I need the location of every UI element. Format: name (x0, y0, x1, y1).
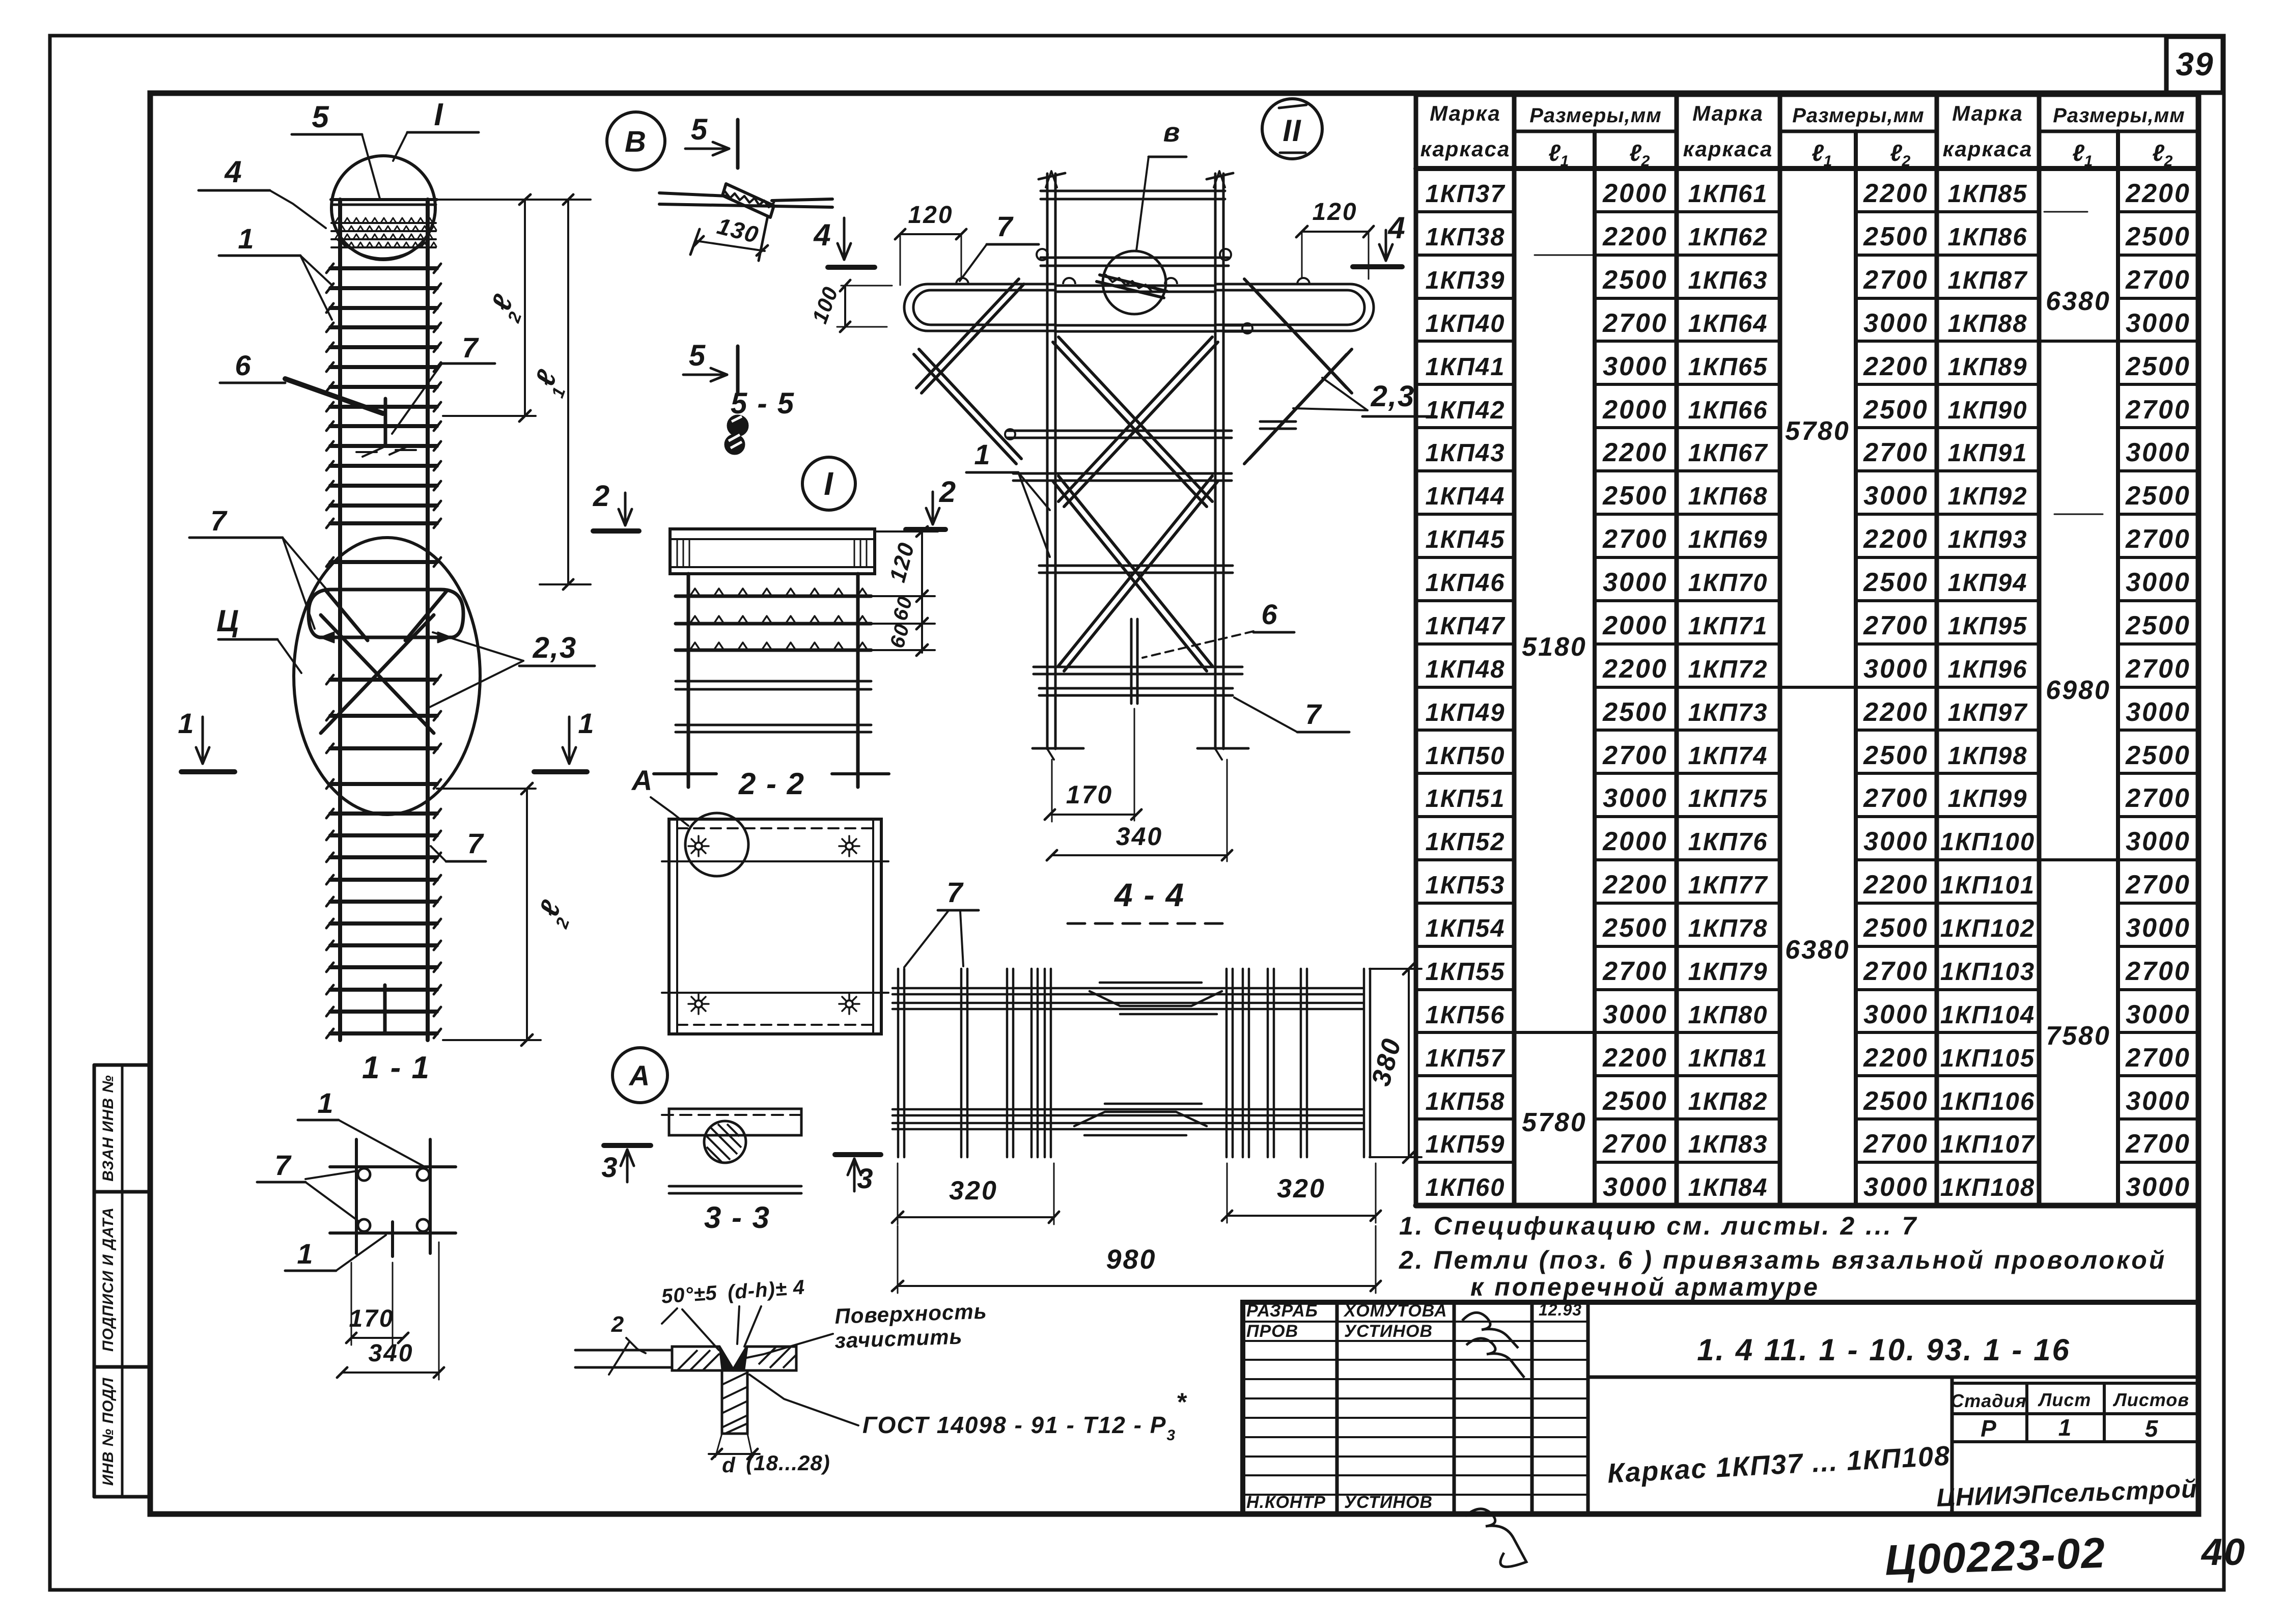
table row lines (1416, 210, 1514, 213)
inner frame (150, 93, 2198, 1514)
svg-text:1КП70: 1КП70 (1688, 569, 1768, 597)
svg-text:1. Спецификацию см. листы.: 1. Спецификацию см. листы. 2 ... 7 (1399, 1212, 1918, 1240)
svg-text:2200: 2200 (1863, 524, 1929, 554)
lifting loop poz6 (309, 590, 463, 637)
3-3 bar section hatched (704, 1121, 746, 1163)
svg-text:УСТИНОВ: УСТИНОВ (1344, 1322, 1433, 1341)
svg-text:2200: 2200 (1863, 697, 1929, 727)
svg-text:ℓ: ℓ (1890, 139, 1902, 166)
svg-text:4: 4 (224, 155, 242, 189)
svg-text:ℓ: ℓ (1548, 139, 1561, 166)
svg-text:1КП96: 1КП96 (1947, 656, 2027, 683)
svg-text:2500: 2500 (2125, 481, 2191, 511)
svg-text:6980: 6980 (2046, 676, 2111, 705)
svg-text:5780: 5780 (1522, 1108, 1587, 1137)
weld symbol top-left (695, 843, 702, 850)
table header line razmery (1514, 130, 1677, 133)
4-4 bottom chord pair (893, 1108, 1362, 1111)
svg-text:2: 2 (939, 475, 957, 509)
svg-text:2: 2 (2164, 153, 2173, 170)
svg-text:1КП104: 1КП104 (1940, 1001, 2035, 1029)
svg-text:Марка: Марка (1692, 101, 1764, 125)
splice detail circle B ref (1103, 251, 1166, 314)
svg-text:2: 2 (1902, 153, 1911, 170)
svg-text:2000: 2000 (1602, 395, 1668, 425)
svg-text:2,3: 2,3 (533, 631, 577, 664)
svg-text:170: 170 (349, 1305, 394, 1332)
svg-text:1: 1 (1824, 153, 1832, 170)
svg-text:1КП37: 1КП37 (1425, 180, 1506, 208)
svg-text:7: 7 (946, 876, 964, 908)
svg-text:1КП83: 1КП83 (1688, 1131, 1768, 1158)
weld symbol bottom-right (846, 1000, 853, 1007)
svg-text:3000: 3000 (1863, 1172, 1929, 1202)
svg-text:1КП103: 1КП103 (1940, 958, 2035, 986)
svg-text:3000: 3000 (1863, 481, 1929, 511)
svg-text:1КП87: 1КП87 (1947, 267, 2028, 294)
svg-text:2500: 2500 (1602, 913, 1668, 943)
svg-text:1: 1 (2084, 153, 2093, 170)
svg-text:3000: 3000 (2126, 1086, 2191, 1116)
svg-text:120: 120 (1312, 199, 1357, 226)
svg-text:2000: 2000 (1602, 827, 1668, 856)
svg-text:3000: 3000 (1863, 654, 1929, 684)
svg-text:2500: 2500 (1863, 568, 1929, 597)
svg-text:2200: 2200 (1602, 222, 1668, 251)
hairpin tick mid (384, 399, 387, 446)
svg-text:5: 5 (691, 113, 708, 146)
svg-text:1КП65: 1КП65 (1688, 353, 1768, 381)
svg-text:1КП46: 1КП46 (1425, 569, 1505, 597)
svg-text:1КП61: 1КП61 (1688, 180, 1768, 208)
svg-text:II: II (1283, 114, 1301, 148)
dimension d 18-28 (715, 1434, 722, 1457)
svg-text:ℓ: ℓ (2072, 139, 2084, 166)
bar 5 with stub (1007, 430, 1232, 432)
svg-text:1КП82: 1КП82 (1688, 1088, 1768, 1115)
weld fill triangles (719, 1347, 733, 1369)
title block frame (1243, 1302, 2198, 1514)
weld plate hatched (672, 1347, 796, 1370)
svg-text:2700: 2700 (1863, 265, 1929, 295)
svg-text:2500: 2500 (1863, 222, 1929, 251)
break symbol mid (356, 451, 377, 453)
svg-text:1КП39: 1КП39 (1425, 267, 1505, 294)
svg-text:2700: 2700 (1602, 1129, 1668, 1159)
spliced bar 5-5 (659, 193, 726, 196)
svg-text:2200: 2200 (1602, 438, 1668, 467)
dimension 380 (1370, 968, 1422, 970)
detail I dome circle (331, 156, 435, 260)
svg-text:каркаса: каркаса (1943, 137, 2033, 161)
svg-text:Лист: Лист (2038, 1389, 2092, 1410)
2-2 plain bar 2 (676, 724, 871, 726)
svg-text:2700: 2700 (1602, 957, 1668, 986)
svg-text:340: 340 (1116, 822, 1163, 851)
2-2 ground marks (654, 772, 716, 775)
2-2 dimensions (876, 530, 938, 533)
svg-text:2700: 2700 (1602, 309, 1668, 338)
plan square outline (669, 819, 881, 1034)
svg-text:2700: 2700 (2125, 265, 2191, 295)
svg-text:2700: 2700 (2125, 783, 2191, 813)
svg-text:зачистить: зачистить (834, 1324, 963, 1353)
section marker 3 left (604, 1143, 651, 1148)
svg-text:2200: 2200 (2125, 179, 2191, 208)
svg-text:320: 320 (1277, 1174, 1326, 1203)
svg-text:1КП77: 1КП77 (1688, 872, 1768, 899)
svg-text:4: 4 (813, 218, 831, 252)
2-2 plain bar 1 (676, 680, 871, 683)
big right rail (1214, 174, 1217, 749)
svg-text:3000: 3000 (2126, 1000, 2191, 1029)
svg-text:7: 7 (462, 331, 479, 363)
inner X brace (1058, 476, 1212, 666)
svg-text:Размеры,мм: Размеры,мм (2053, 104, 2185, 127)
svg-text:1КП75: 1КП75 (1688, 785, 1768, 813)
svg-text:Размеры,мм: Размеры,мм (1529, 104, 1662, 127)
svg-text:2500: 2500 (2125, 222, 2191, 251)
svg-text:1КП38: 1КП38 (1425, 223, 1505, 251)
svg-text:6: 6 (235, 349, 252, 381)
plan square top band (662, 860, 888, 862)
svg-text:1КП44: 1КП44 (1425, 483, 1505, 510)
svg-text:39: 39 (2176, 46, 2214, 82)
svg-text:2200: 2200 (1863, 179, 1929, 208)
svg-text:1КП62: 1КП62 (1688, 223, 1768, 251)
svg-text:2500: 2500 (2125, 352, 2191, 381)
dome lower arc (337, 239, 430, 259)
ladder top mesh zone (331, 222, 436, 224)
center rod (1130, 619, 1133, 704)
svg-text:Н.КОНТР: Н.КОНТР (1246, 1493, 1326, 1512)
svg-text:1КП71: 1КП71 (1688, 612, 1768, 640)
svg-text:1КП105: 1КП105 (1940, 1045, 2035, 1072)
svg-text:2200: 2200 (1863, 352, 1929, 381)
svg-text:1КП92: 1КП92 (1947, 483, 2027, 510)
svg-text:2: 2 (593, 480, 610, 513)
svg-text:2200: 2200 (1602, 870, 1668, 900)
svg-text:1КП45: 1КП45 (1425, 526, 1505, 553)
svg-text:7: 7 (210, 505, 228, 537)
svg-text:1КП58: 1КП58 (1425, 1088, 1505, 1115)
svg-text:ℓ: ℓ (1812, 139, 1824, 166)
svg-text:2700: 2700 (1863, 438, 1929, 467)
bar 9 big (1039, 687, 1233, 690)
svg-text:4 - 4: 4 - 4 (1113, 877, 1185, 913)
svg-text:1КП106: 1КП106 (1940, 1088, 2035, 1115)
2-2 left rail (687, 574, 690, 787)
svg-text:УСТИНОВ: УСТИНОВ (1344, 1493, 1433, 1512)
dimension l1 full (567, 200, 569, 584)
svg-text:5780: 5780 (1785, 416, 1850, 446)
svg-text:1КП40: 1КП40 (1425, 310, 1505, 338)
weld symbol bottom-left (695, 1000, 702, 1007)
svg-text:1КП48: 1КП48 (1425, 656, 1505, 683)
svg-text:2500: 2500 (1863, 913, 1929, 943)
dimension 100 (841, 285, 892, 287)
svg-text:3 - 3: 3 - 3 (704, 1200, 770, 1235)
rail top hooks (1039, 173, 1065, 179)
svg-text:50°±5: 50°±5 (661, 1281, 718, 1308)
svg-text:7: 7 (274, 1149, 292, 1181)
bar 7 big (1039, 565, 1233, 567)
svg-text:120: 120 (908, 202, 953, 229)
callout circle on plan corner (685, 813, 748, 876)
svg-text:3000: 3000 (1863, 309, 1929, 338)
svg-text:1: 1 (297, 1238, 314, 1270)
svg-text:7: 7 (467, 827, 484, 859)
svg-text:2700: 2700 (2125, 524, 2191, 554)
svg-text:1: 1 (238, 222, 255, 255)
svg-text:2700: 2700 (2125, 654, 2191, 684)
ladder rungs lower zone (330, 811, 437, 816)
svg-text:1КП50: 1КП50 (1425, 742, 1505, 770)
gost leader (749, 1375, 858, 1425)
svg-text:1КП95: 1КП95 (1947, 612, 2027, 640)
surface leader (744, 1334, 833, 1358)
svg-text:2700: 2700 (1602, 524, 1668, 554)
svg-text:ℓ: ℓ (1629, 139, 1641, 166)
svg-text:2700: 2700 (2125, 1129, 2191, 1159)
svg-text:1КП101: 1КП101 (1940, 872, 2035, 899)
svg-text:2500: 2500 (2125, 741, 2191, 770)
svg-text:1КП93: 1КП93 (1947, 526, 2027, 553)
svg-text:каркаса: каркаса (1683, 137, 1773, 161)
svg-text:Листов: Листов (2112, 1389, 2189, 1410)
svg-text:1КП51: 1КП51 (1425, 785, 1505, 813)
svg-text:3000: 3000 (1603, 352, 1668, 381)
signature squiggle 2 (1466, 1338, 1524, 1378)
section 1-1 corner bars (358, 1168, 370, 1181)
svg-text:7580: 7580 (2046, 1021, 2111, 1051)
svg-text:1: 1 (1561, 153, 1569, 170)
svg-text:(18...28): (18...28) (746, 1451, 830, 1475)
ladder top cap plate (331, 198, 437, 201)
svg-text:1КП89: 1КП89 (1947, 353, 2027, 381)
svg-text:1: 1 (974, 438, 991, 470)
page number box (2166, 37, 2223, 93)
svg-text:1КП63: 1КП63 (1688, 267, 1768, 294)
loop corner diagonal left (326, 591, 368, 640)
svg-text:3: 3 (857, 1162, 874, 1194)
bar sections hatched (728, 416, 747, 435)
svg-text:3000: 3000 (2126, 697, 2191, 727)
svg-text:5: 5 (2145, 1415, 2159, 1442)
svg-text:1КП80: 1КП80 (1688, 1001, 1768, 1029)
svg-text:2500: 2500 (1863, 741, 1929, 770)
svg-text:3000: 3000 (1603, 783, 1668, 813)
loop bottom bar (321, 636, 451, 639)
svg-text:ПОДПИСИ И ДАТА: ПОДПИСИ И ДАТА (100, 1207, 117, 1352)
svg-text:1КП79: 1КП79 (1688, 958, 1768, 986)
svg-text:3: 3 (601, 1151, 618, 1183)
svg-text:I: I (824, 465, 834, 502)
svg-text:2000: 2000 (1602, 611, 1668, 640)
svg-text:2 - 2: 2 - 2 (738, 767, 805, 801)
svg-text:3000: 3000 (1603, 568, 1668, 597)
svg-text:1КП86: 1КП86 (1947, 223, 2027, 251)
4-4 bottom splice jogs (1074, 1112, 1207, 1126)
big top bar 1 (1041, 190, 1225, 192)
section marker 3 right (835, 1152, 881, 1157)
svg-text:Размеры,мм: Размеры,мм (1792, 104, 1925, 127)
svg-text:1КП88: 1КП88 (1947, 310, 2027, 338)
svg-text:7: 7 (1305, 698, 1322, 730)
svg-text:1КП98: 1КП98 (1947, 742, 2027, 770)
dimension l2 upper (434, 199, 591, 201)
svg-text:12.93: 12.93 (1539, 1301, 1582, 1319)
svg-text:3000: 3000 (1863, 1000, 1929, 1029)
weld symbol top-right (846, 843, 853, 850)
svg-text:1КП107: 1КП107 (1940, 1131, 2036, 1158)
svg-text:340: 340 (368, 1340, 413, 1367)
svg-text:3000: 3000 (2126, 438, 2191, 467)
svg-text:А: А (631, 764, 653, 796)
svg-text:1КП52: 1КП52 (1425, 828, 1505, 856)
svg-text:Ц00223-02: Ц00223-02 (1884, 1528, 2106, 1584)
big top bar 2 (1041, 257, 1229, 259)
svg-text:2200: 2200 (1863, 1043, 1929, 1073)
svg-text:1КП56: 1КП56 (1425, 1001, 1505, 1029)
svg-text:1: 1 (178, 707, 194, 739)
svg-text:1КП68: 1КП68 (1688, 483, 1768, 510)
4-4 vertical bars (897, 969, 900, 1157)
weld detail leaders (682, 1309, 719, 1350)
svg-text:1. 4 11. 1 - 10. 93. 1 - 16: 1. 4 11. 1 - 10. 93. 1 - 16 (1697, 1333, 2071, 1367)
svg-text:1КП73: 1КП73 (1688, 699, 1768, 726)
svg-text:1КП67: 1КП67 (1688, 439, 1768, 467)
svg-text:2700: 2700 (2125, 957, 2191, 986)
svg-text:1 - 1: 1 - 1 (362, 1050, 430, 1085)
callout circle B (607, 112, 665, 170)
outer X brace left (916, 279, 1019, 388)
svg-text:1КП59: 1КП59 (1425, 1131, 1505, 1158)
svg-text:170: 170 (1066, 780, 1113, 809)
svg-text:2: 2 (611, 1312, 625, 1337)
title block left rows (1243, 1321, 1588, 1323)
detail II ellipse (294, 538, 480, 815)
svg-text:1КП99: 1КП99 (1947, 785, 2027, 813)
svg-text:5: 5 (689, 339, 706, 372)
svg-text:1КП81: 1КП81 (1688, 1045, 1768, 1072)
svg-text:1КП76: 1КП76 (1688, 828, 1768, 856)
svg-text:3000: 3000 (1863, 827, 1929, 856)
svg-text:2500: 2500 (1863, 395, 1929, 425)
svg-text:1КП84: 1КП84 (1688, 1174, 1768, 1201)
svg-text:2500: 2500 (1863, 1086, 1929, 1116)
splice bar on wing (1100, 275, 1167, 291)
svg-text:В: В (625, 125, 647, 158)
svg-text:2500: 2500 (1602, 265, 1668, 295)
svg-text:2200: 2200 (1602, 1043, 1668, 1073)
svg-text:1КП64: 1КП64 (1688, 310, 1768, 338)
svg-text:3000: 3000 (2126, 309, 2191, 338)
svg-text:1КП108: 1КП108 (1940, 1174, 2035, 1201)
svg-text:1КП78: 1КП78 (1688, 915, 1768, 942)
wing chord top (1055, 285, 1215, 287)
svg-text:1КП55: 1КП55 (1425, 958, 1505, 986)
right wing outline (1215, 284, 1374, 331)
dimension l2 lower (437, 788, 536, 790)
callout circle II (1262, 99, 1322, 159)
svg-text:1КП91: 1КП91 (1947, 439, 2027, 467)
svg-text:3000: 3000 (2126, 827, 2191, 856)
l1 merged-cell boundaries (1514, 1031, 1595, 1034)
svg-text:320: 320 (949, 1176, 998, 1206)
svg-text:1КП72: 1КП72 (1688, 656, 1768, 683)
svg-text:Ц: Ц (216, 604, 240, 638)
svg-text:1КП74: 1КП74 (1688, 742, 1768, 770)
svg-text:Марка: Марка (1430, 101, 1501, 125)
svg-text:2700: 2700 (1863, 1129, 1929, 1159)
wing tie hooks (956, 278, 968, 284)
svg-text:7: 7 (996, 210, 1014, 242)
svg-text:Стадия: Стадия (1950, 1390, 2026, 1411)
svg-text:d: d (722, 1453, 736, 1477)
svg-text:2700: 2700 (2125, 870, 2191, 900)
svg-text:2. Петли (поз. 6 ) привязать: 2. Петли (поз. 6 ) привязать вязальной п… (1399, 1246, 2166, 1274)
svg-text:6: 6 (1261, 598, 1278, 630)
svg-text:1КП42: 1КП42 (1425, 397, 1505, 424)
svg-text:1КП69: 1КП69 (1688, 526, 1768, 553)
big left rail (1046, 174, 1049, 749)
ladder rungs upper zone (330, 266, 437, 270)
svg-text:6380: 6380 (1785, 935, 1850, 965)
inner X brace upper (1058, 337, 1212, 501)
svg-text:ℓ: ℓ (2152, 139, 2164, 166)
bar 6 (1013, 472, 1232, 475)
2-2 top plate (670, 529, 875, 574)
svg-text:1КП47: 1КП47 (1425, 612, 1506, 640)
ladder rungs middle zone (330, 521, 437, 525)
4-4 top chord pair (893, 987, 1362, 990)
svg-text:РАЗРАБ: РАЗРАБ (1246, 1301, 1318, 1321)
svg-text:2200: 2200 (1863, 870, 1929, 900)
svg-text:ВЗАН ИНВ №: ВЗАН ИНВ № (100, 1075, 117, 1181)
weld stem hatched (722, 1370, 747, 1434)
svg-text:2500: 2500 (2125, 611, 2191, 640)
svg-text:3000: 3000 (2126, 568, 2191, 597)
outer X brace right (1244, 279, 1347, 388)
svg-text:3000: 3000 (2126, 1172, 2191, 1202)
signature squiggle 3 (1465, 1509, 1526, 1567)
svg-text:ХОМУТОВА: ХОМУТОВА (1343, 1301, 1447, 1321)
svg-text:980: 980 (1106, 1244, 1156, 1275)
svg-text:2700: 2700 (1863, 611, 1929, 640)
loop corner diagonal right (405, 591, 447, 640)
svg-text:1КП41: 1КП41 (1425, 353, 1505, 381)
svg-text:1КП54: 1КП54 (1425, 915, 1505, 942)
svg-text:2: 2 (1641, 153, 1650, 170)
svg-text:к поперечной арматуре: к поперечной арматуре (1470, 1273, 1820, 1301)
plan square bottom band (662, 992, 888, 994)
weld zigzag 5-5 (725, 191, 774, 207)
svg-text:2200: 2200 (1602, 654, 1668, 684)
svg-text:2700: 2700 (2125, 1043, 2191, 1073)
title block left columns (1335, 1302, 1339, 1514)
doc number cell line (1588, 1376, 2198, 1379)
svg-text:2,3: 2,3 (1371, 380, 1415, 413)
svg-text:1КП53: 1КП53 (1425, 872, 1505, 899)
4-4 top splice jogs (1090, 991, 1222, 1006)
bar extension lines left (575, 1349, 672, 1352)
ladder right rail (426, 200, 430, 1040)
table header bottom line (1416, 166, 2198, 171)
svg-text:2700: 2700 (1863, 783, 1929, 813)
svg-text:в: в (1163, 117, 1181, 148)
section 1-1 hairpin tick (391, 1222, 394, 1256)
